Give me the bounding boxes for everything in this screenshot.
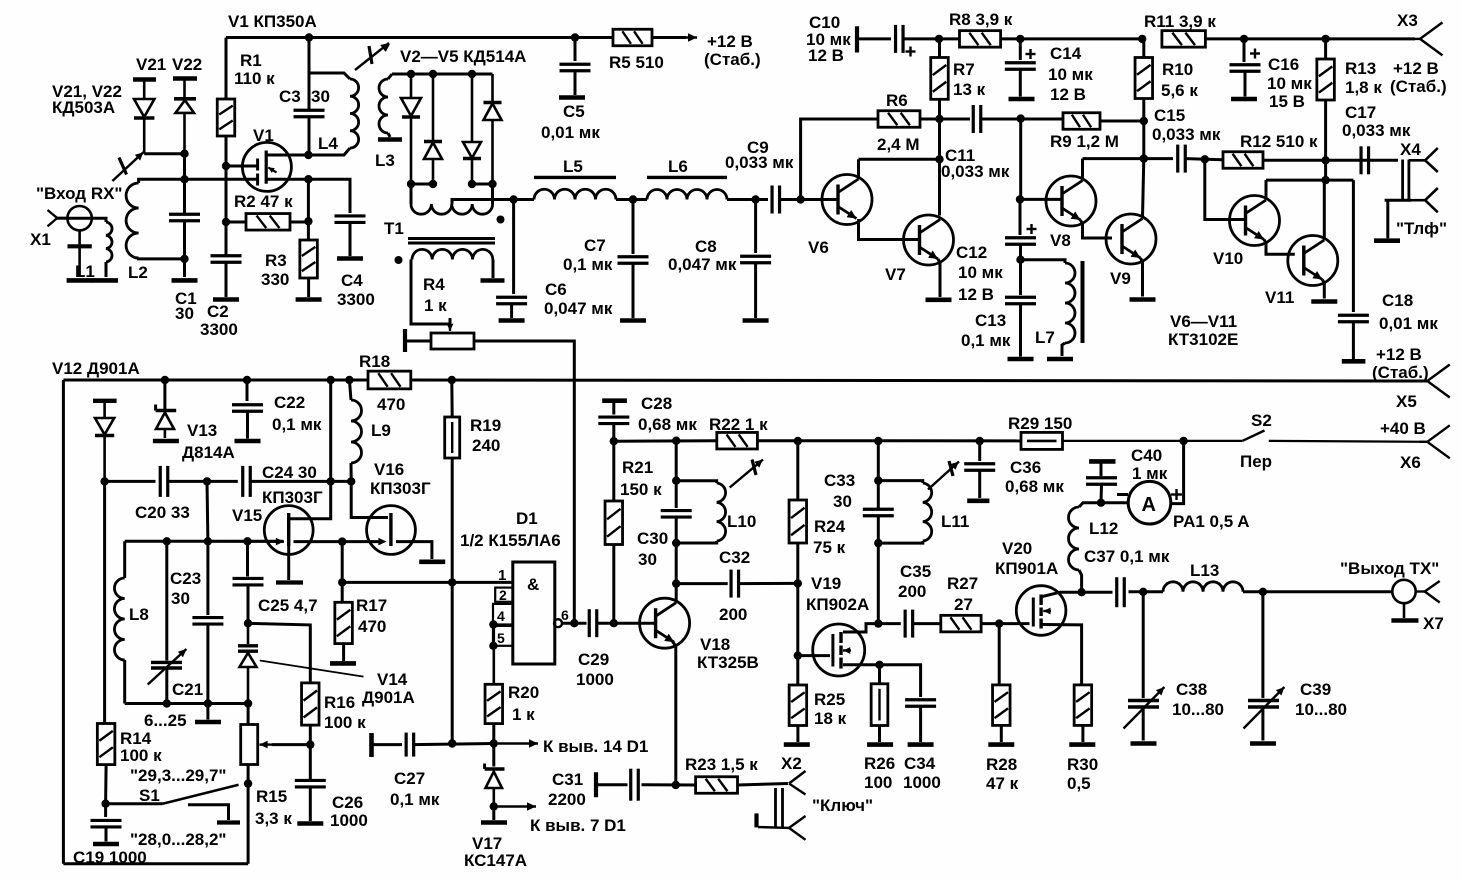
wire V9 collector <box>1143 159 1144 218</box>
node C21 top node <box>163 537 171 545</box>
svg-text:С37 0,1 мк: С37 0,1 мк <box>1084 547 1170 566</box>
connector X5 <box>1419 365 1450 398</box>
svg-text:R3: R3 <box>265 251 287 270</box>
svg-text:V2—V5 КД514А: V2—V5 КД514А <box>400 47 526 66</box>
node R10 bottom node <box>1140 154 1148 162</box>
svg-text:27: 27 <box>954 595 973 614</box>
svg-text:КП901А: КП901А <box>995 559 1058 578</box>
zener V13 <box>156 405 177 439</box>
svg-text:330: 330 <box>261 270 289 289</box>
wire V12-R14 <box>103 481 106 723</box>
wire C27-R20 <box>414 744 494 745</box>
svg-text:"Выход TX": "Выход TX" <box>1340 559 1439 578</box>
svg-text:V14: V14 <box>377 670 408 689</box>
node V18 emitter node <box>672 781 680 789</box>
wire C7 gnd lead <box>632 264 635 319</box>
inductor L12 <box>1069 507 1080 570</box>
resistor R16 <box>302 683 320 725</box>
wire bridge bottom right <box>472 183 493 186</box>
node b2 <box>429 70 437 78</box>
node gate2 node <box>180 175 188 183</box>
svg-text:0,68 мк: 0,68 мк <box>638 415 697 434</box>
svg-text:C36: C36 <box>1010 458 1041 477</box>
terminal bar C28 <box>602 398 627 403</box>
wire V19 drain <box>843 624 878 632</box>
svg-text:200: 200 <box>898 582 926 601</box>
wire C34 top lead <box>880 665 921 697</box>
connector X2 pin2 fork <box>789 816 806 840</box>
node V15 col node <box>327 477 335 485</box>
wire C30 top lead <box>675 481 678 508</box>
wire L10 col top <box>675 441 678 481</box>
node pin6 node <box>570 619 578 627</box>
capacitor C30 <box>661 511 692 518</box>
svg-text:0,033 мк: 0,033 мк <box>941 162 1010 181</box>
ground L3 gnd <box>378 137 402 142</box>
wire C36 top lead <box>978 441 981 461</box>
svg-text:C28: C28 <box>641 394 672 413</box>
diode V21 <box>133 80 156 154</box>
wire R28 top lead <box>998 624 1001 685</box>
svg-text:+12 В: +12 В <box>1376 345 1422 364</box>
wire C26 lead <box>309 745 312 779</box>
terminal bar +12V bottom <box>1342 359 1366 364</box>
resistor R18 <box>368 371 411 389</box>
ammeter PA1 <box>1128 481 1171 524</box>
wire bridge bottom left <box>411 183 433 186</box>
ground C16 gnd <box>1231 97 1257 102</box>
wire C14 lead <box>1019 39 1022 60</box>
svg-text:5: 5 <box>497 630 505 646</box>
wire R13 bottom <box>1324 100 1327 160</box>
wire C5 gnd lead <box>574 71 577 95</box>
svg-text:L13: L13 <box>1190 561 1219 580</box>
wire drain-C37 <box>1082 591 1113 594</box>
svg-text:L1: L1 <box>75 262 95 281</box>
node rail R19 <box>448 376 456 384</box>
svg-text:R4: R4 <box>423 275 445 294</box>
wire C38 col <box>1142 592 1145 698</box>
node C14 node <box>1016 35 1024 43</box>
wire V22 down <box>183 154 186 180</box>
svg-text:100 к: 100 к <box>120 746 162 765</box>
terminal bar C10 input <box>855 26 859 52</box>
T1 core <box>408 239 495 244</box>
connector X3 <box>1412 22 1443 55</box>
svg-text:R16: R16 <box>324 693 355 712</box>
wire V18 emitter <box>673 642 676 786</box>
node R17 mid node <box>338 578 346 586</box>
svg-text:1,8 к: 1,8 к <box>1345 78 1382 97</box>
ground V7 gnd <box>926 297 952 302</box>
terminal bar C31 <box>594 772 598 797</box>
node R3 top node <box>304 217 312 225</box>
wire C11-V8base <box>1019 119 1022 200</box>
node C28 node <box>610 437 618 445</box>
wire R7node-C11 <box>940 118 971 121</box>
wire L9 top lead <box>349 380 351 400</box>
node coll bus node <box>1321 176 1329 184</box>
C16 plus <box>1250 49 1260 59</box>
svg-text:Д901А: Д901А <box>362 688 415 707</box>
inductor L10 <box>717 483 726 541</box>
ground R28 gnd <box>988 742 1014 747</box>
resistor R19 <box>445 417 460 458</box>
wire L4 bottom lead <box>309 148 350 155</box>
svg-text:2: 2 <box>499 587 507 603</box>
inductor L11 <box>923 483 932 541</box>
node L10 rail node <box>672 437 680 445</box>
svg-text:X3: X3 <box>1397 11 1418 30</box>
wire V9 emitter lead <box>1141 258 1143 297</box>
wire +12V RX rail <box>226 36 613 39</box>
svg-text:C3: C3 <box>279 87 301 106</box>
svg-text:30: 30 <box>171 589 190 608</box>
wire C35 wire l <box>878 622 901 625</box>
wire V11 emitter lead <box>1322 280 1324 299</box>
capacitor C20 <box>160 466 168 497</box>
node drain node <box>304 151 312 159</box>
svg-text:КП303Г: КП303Г <box>370 479 431 498</box>
svg-text:S1: S1 <box>139 786 160 805</box>
svg-text:1: 1 <box>498 567 506 584</box>
svg-text:КД503А: КД503А <box>52 98 115 117</box>
T1 polarity dot secondary <box>395 256 403 264</box>
svg-text:150 к: 150 к <box>620 480 662 499</box>
svg-text:R20: R20 <box>508 683 539 702</box>
wire R2 left lead <box>226 221 246 224</box>
inductor L7 <box>1065 263 1075 343</box>
node L10 top node <box>672 477 680 485</box>
X2 ground link <box>757 813 790 828</box>
wire C26 gnd lead <box>309 788 312 822</box>
wire C8 lead <box>754 200 757 254</box>
node C1 bottom node <box>180 255 188 263</box>
node S1 upper node <box>244 779 252 787</box>
wire V10 emitter lead <box>1264 240 1295 255</box>
ground R3 gnd <box>296 297 322 302</box>
svg-text:R6: R6 <box>886 91 908 110</box>
wire V15 source <box>294 540 384 543</box>
svg-text:V22: V22 <box>172 55 202 74</box>
svg-text:R8 3,9 к: R8 3,9 к <box>949 10 1013 29</box>
transistor V20 KP901A <box>1016 586 1066 636</box>
svg-text:0,5: 0,5 <box>1067 774 1091 793</box>
S1 lower contact <box>188 805 240 823</box>
resistor R29 <box>1021 432 1063 449</box>
node rail V15 <box>327 376 335 384</box>
wire pin6 wire <box>562 622 587 625</box>
resistor R24 <box>789 500 807 543</box>
wire C40 bot lead <box>1100 485 1104 503</box>
wire R8-right <box>1001 37 1143 40</box>
wire R15 top lead <box>247 704 250 725</box>
wire C32 wire l <box>676 582 728 585</box>
wire L3 gnd lead <box>388 133 390 137</box>
ground C8 gnd <box>743 318 769 323</box>
capacitor C24 <box>243 466 251 497</box>
transistor V7 <box>904 215 954 265</box>
svg-text:"Ключ": "Ключ" <box>812 796 873 815</box>
svg-text:470: 470 <box>377 395 405 414</box>
wire C16 lead <box>1243 39 1246 62</box>
wire collector bus <box>1266 179 1353 182</box>
wire C29-V18 <box>597 622 656 625</box>
ground C5 gnd <box>559 95 585 100</box>
wire R1 top <box>225 38 228 100</box>
wire X5 rail left <box>63 379 368 382</box>
svg-text:3300: 3300 <box>337 290 375 309</box>
wire R17 top lead <box>341 542 344 583</box>
svg-text:L2: L2 <box>128 263 148 282</box>
wire R25 top <box>796 656 799 685</box>
wire C20C24-gate <box>206 481 210 541</box>
capacitor C27 <box>406 733 414 757</box>
capacitor C29 <box>589 609 597 637</box>
svg-text:0,01 мк: 0,01 мк <box>541 123 600 142</box>
inductor L5 <box>534 189 616 199</box>
ground C19 gnd <box>93 842 119 847</box>
wire sig-C15 <box>1144 157 1173 160</box>
connector X2 plug bars <box>776 788 783 827</box>
wire L12 bot lead <box>1079 570 1082 592</box>
capacitor C36 <box>964 464 995 471</box>
wire V19 gate wire <box>798 654 830 657</box>
wire V8 emitter lead <box>1081 220 1113 238</box>
ground C14 gnd <box>1009 97 1035 102</box>
pin45 tie <box>492 625 495 685</box>
svg-text:R27: R27 <box>947 574 978 593</box>
svg-text:D1: D1 <box>516 509 538 528</box>
svg-text:C22: C22 <box>274 393 305 412</box>
node rail-C3 <box>305 33 313 41</box>
node tb2 <box>204 699 212 707</box>
T1 polarity dot primary <box>497 216 505 224</box>
svg-text:X2: X2 <box>781 754 802 773</box>
node C7 node <box>629 195 637 203</box>
node C11 right node <box>1017 114 1025 122</box>
wire C25 bottom lead <box>247 586 250 624</box>
wire L11-V19drain <box>877 543 880 624</box>
wire V1 source <box>266 178 308 181</box>
wire C2 lead <box>225 222 228 255</box>
wire C13 lead <box>1019 260 1022 295</box>
L7 core bar <box>1081 261 1085 343</box>
wire V19 source <box>843 663 880 666</box>
resistor R25 <box>789 685 807 726</box>
svg-text:R30: R30 <box>1067 755 1098 774</box>
wire C39 col <box>1261 592 1264 698</box>
svg-text:10 мк: 10 мк <box>958 263 1003 282</box>
svg-text:0,1 мк: 0,1 мк <box>961 331 1011 350</box>
svg-text:100 к: 100 к <box>324 713 366 732</box>
node L9 bottom node <box>347 477 355 485</box>
resistor R6 <box>878 111 920 128</box>
node gate1 node <box>222 162 230 170</box>
svg-text:R24: R24 <box>814 517 846 536</box>
C14 plus <box>1026 49 1036 59</box>
svg-text:+12 В: +12 В <box>1393 59 1439 78</box>
node C16 node <box>1240 35 1248 43</box>
wire R24 top lead <box>796 441 799 500</box>
svg-text:R23 1,5 к: R23 1,5 к <box>685 755 758 774</box>
C10 plus <box>906 47 916 57</box>
wire C3 bottom <box>308 117 311 155</box>
svg-text:КС147А: КС147А <box>464 851 527 870</box>
X7 ground <box>1391 603 1418 620</box>
arrow to pin14 <box>498 739 538 748</box>
wire C19 gnd lead <box>105 828 108 842</box>
wire C3 column top <box>308 38 311 74</box>
svg-text:R29 150: R29 150 <box>1008 414 1072 433</box>
connector X4 sleeve <box>1411 188 1438 212</box>
wire C39 gnd lead <box>1261 709 1264 741</box>
terminal bar C36 <box>967 498 989 503</box>
wire C23 bottom lead <box>206 625 209 704</box>
wire C37-L13 <box>1129 590 1164 593</box>
svg-text:C2: C2 <box>207 302 229 321</box>
svg-text:R18: R18 <box>359 352 390 371</box>
transistor V6 <box>822 175 872 225</box>
svg-text:1000: 1000 <box>903 773 941 792</box>
arrow +12V RX <box>668 33 697 42</box>
resistor R17 <box>335 602 353 643</box>
svg-text:К выв. 14 D1: К выв. 14 D1 <box>543 737 648 756</box>
wire C12 lead <box>1019 199 1022 235</box>
svg-text:C21: C21 <box>172 680 203 699</box>
wire L7 gnd lead <box>1062 343 1065 356</box>
svg-text:C4: C4 <box>341 271 363 290</box>
ground C13 gnd <box>1008 357 1034 362</box>
wire R14 bottom lead <box>104 765 108 804</box>
wire C18 bottom lead <box>1352 323 1355 360</box>
L5 core <box>534 176 616 179</box>
svg-text:C13: C13 <box>975 311 1006 330</box>
ground V17 gnd <box>481 820 507 825</box>
capacitor C19 <box>91 820 122 827</box>
resistor R7 <box>931 58 949 100</box>
wire gate2 wire <box>185 178 258 181</box>
wire R12 right <box>1263 159 1398 162</box>
trimmer arrow L4 <box>355 43 389 70</box>
wire PA1 col <box>1171 441 1184 504</box>
bar V15 source <box>276 580 303 584</box>
wire R21 bottom <box>612 545 615 624</box>
svg-text:1000: 1000 <box>576 670 614 689</box>
wire C23 col <box>206 541 209 615</box>
wire R26 gnd lead <box>878 726 881 743</box>
wire L2 top lead <box>139 179 185 183</box>
svg-text:L6: L6 <box>668 157 688 176</box>
svg-text:R11 3,9 к: R11 3,9 к <box>1144 12 1216 31</box>
capacitor C34 <box>905 700 936 707</box>
capacitor C32 <box>731 570 739 598</box>
svg-text:C33: C33 <box>824 471 855 490</box>
svg-text:КТ325В: КТ325В <box>697 653 759 672</box>
wire T1 prim right lead <box>491 184 494 204</box>
node bbr1 <box>468 180 476 188</box>
wire V15 drain col <box>289 380 331 519</box>
wire signal line <box>1083 157 1144 160</box>
capacitor C18 <box>1338 315 1369 322</box>
ground R30 gnd <box>1069 742 1095 747</box>
svg-text:V8: V8 <box>1050 231 1071 250</box>
wire R24 bottom <box>796 543 799 583</box>
svg-text:V9: V9 <box>1110 269 1131 288</box>
capacitor C25 <box>233 578 264 585</box>
svg-text:L5: L5 <box>563 157 583 176</box>
node R10 rail node <box>1138 35 1146 43</box>
svg-text:0,033 мк: 0,033 мк <box>725 153 794 172</box>
resistor R10 <box>1135 58 1153 99</box>
svg-text:КП902А: КП902А <box>806 595 869 614</box>
capacitor C33 <box>863 509 894 516</box>
wire TX rail 1 <box>614 439 717 443</box>
node R17 top node <box>338 537 346 545</box>
svg-text:C5: C5 <box>563 102 585 121</box>
svg-text:С19 1000: С19 1000 <box>73 848 147 867</box>
svg-text:X1: X1 <box>30 230 51 249</box>
wire C27 left wire <box>374 743 403 746</box>
svg-text:2,4 М: 2,4 М <box>877 135 920 154</box>
svg-text:C12: C12 <box>956 243 987 262</box>
svg-text:C14: C14 <box>1050 44 1082 63</box>
varicap V14 <box>238 623 258 703</box>
wire V16 source <box>396 542 432 559</box>
svg-text:C24 30: C24 30 <box>262 463 317 482</box>
connector X6 <box>1419 425 1450 458</box>
wire C3 column <box>308 73 311 110</box>
wire L8 bottom lead <box>123 660 126 704</box>
wire R1 bottom <box>225 136 228 166</box>
wire R17 lead2 <box>341 582 344 602</box>
node C12 top node <box>1016 195 1024 203</box>
resistor R26 <box>871 684 888 726</box>
svg-text:1000: 1000 <box>330 811 368 830</box>
node V10 node <box>1201 155 1209 163</box>
svg-text:L10: L10 <box>727 512 756 531</box>
svg-text:75 к: 75 к <box>813 538 846 557</box>
wire C19 lead <box>104 804 107 817</box>
capacitor C17 <box>1361 146 1369 174</box>
svg-text:15 В: 15 В <box>1269 92 1305 111</box>
ground V16 gnd <box>419 559 445 564</box>
wire V13 top lead <box>163 380 166 409</box>
capacitor C28 <box>598 417 629 424</box>
svg-text:R17: R17 <box>356 596 387 615</box>
wire C21 col <box>165 541 168 660</box>
wire L1 gnd lead <box>105 262 108 277</box>
ground C2 gnd <box>213 297 239 302</box>
svg-text:(Стаб.): (Стаб.) <box>1372 363 1429 382</box>
svg-text:C30: C30 <box>637 529 668 548</box>
wire R7-V7coll <box>938 119 941 159</box>
node C40 bot node <box>1097 499 1105 507</box>
wire C7 lead <box>632 200 635 255</box>
wire R26 top lead <box>878 665 881 684</box>
capacitor C16 <box>1230 65 1261 72</box>
svg-text:0,1 мк: 0,1 мк <box>390 790 440 809</box>
node rail L9 <box>345 376 353 384</box>
wire R23-X2 <box>738 784 789 786</box>
node pin5 node <box>489 642 497 650</box>
resistor R11 <box>1162 31 1206 48</box>
node C25 top node <box>243 537 251 545</box>
wire T1 prim left lead <box>410 184 413 204</box>
svg-text:C27: C27 <box>394 769 425 788</box>
svg-text:0,68 мк: 0,68 мк <box>1005 477 1064 496</box>
svg-text:C34: C34 <box>904 754 936 773</box>
